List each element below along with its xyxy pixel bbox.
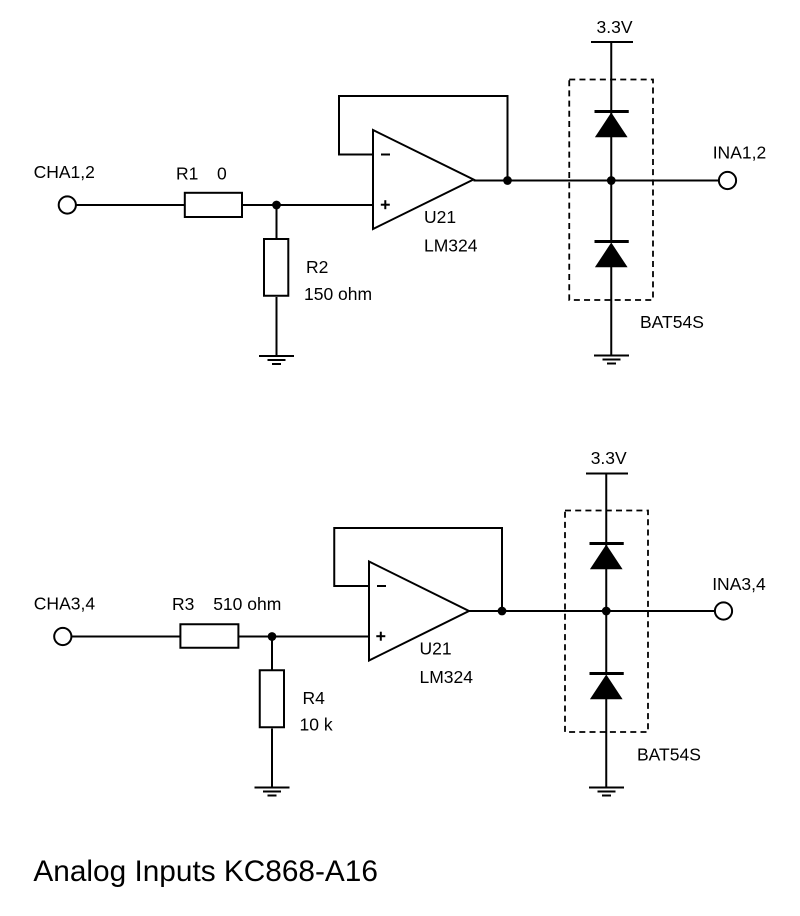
junction node at feedback/output (second) <box>498 607 507 616</box>
label U21 (second) <box>420 639 452 659</box>
junction node at R2 top <box>272 201 281 210</box>
power rail bar 3.3V <box>591 41 633 43</box>
svg-text:R4: R4 <box>303 688 326 708</box>
svg-text:510 ohm: 510 ohm <box>213 594 281 614</box>
wire R1 to op-amp + input <box>243 204 373 206</box>
svg-text:R2: R2 <box>306 257 328 277</box>
node CHA1,2 label <box>34 162 95 182</box>
feedback wire (output to - input) <box>334 528 502 612</box>
diode D4 (to ground) <box>590 674 624 700</box>
terminal INA3,4 <box>715 602 732 619</box>
svg-text:3.3V: 3.3V <box>591 448 627 468</box>
terminal CHA3,4 <box>54 628 71 645</box>
label R1 value 0 <box>176 164 227 184</box>
power rail bar 3.3V (second) <box>586 473 628 475</box>
svg-text:0: 0 <box>217 164 227 184</box>
wire node to R2 <box>276 205 278 238</box>
wire terminal to R1 <box>76 204 184 206</box>
label LM324 (second) <box>420 667 474 687</box>
diode D2 (to ground) <box>595 242 629 268</box>
svg-text:150 ohm: 150 ohm <box>304 284 372 304</box>
label LM324 <box>424 236 478 256</box>
label U21 <box>424 207 456 227</box>
label BAT54S <box>640 312 704 332</box>
ground below diode column (second) <box>589 788 624 796</box>
op-amp plus input mark <box>381 200 390 209</box>
wire op-amp output to INA3,4 terminal <box>469 610 715 612</box>
svg-text:R1: R1 <box>176 164 198 184</box>
node INA1,2 label <box>713 142 767 162</box>
ground below R2 <box>259 356 294 364</box>
wire R3 to op-amp + input <box>239 636 370 638</box>
terminal CHA1,2 <box>59 196 76 213</box>
junction node at feedback/output <box>503 176 512 185</box>
svg-text:3.3V: 3.3V <box>597 17 633 37</box>
power 3.3V label <box>597 17 633 37</box>
node CHA3,4 label <box>34 593 96 613</box>
label BAT54S (second) <box>637 744 701 764</box>
svg-text:LM324: LM324 <box>420 667 474 687</box>
wire D4 to ground <box>605 699 607 788</box>
resistor R4 <box>260 670 284 727</box>
wire R4 to ground <box>271 729 273 788</box>
wire 3.3V to diode D1 <box>610 42 612 135</box>
wire D1 to output node <box>610 137 612 241</box>
ground below diode column <box>594 356 629 364</box>
op-amp minus input mark <box>381 154 390 156</box>
junction node at R4 top <box>268 632 277 641</box>
wire 3.3V to diode D3 <box>605 474 607 567</box>
wire op-amp output to INA1,2 terminal <box>474 180 719 182</box>
diode D1 (to 3.3V) <box>595 112 629 138</box>
op-amp U21 (second) <box>369 562 469 661</box>
feedback wire (output to - input) <box>339 96 508 181</box>
svg-text:U21: U21 <box>420 639 452 659</box>
junction node at diode column <box>607 176 616 185</box>
diode D3 (to 3.3V) <box>590 544 624 570</box>
label R4 10 k <box>300 688 333 734</box>
terminal INA1,2 <box>719 172 736 189</box>
wire D2 to ground <box>610 267 612 356</box>
svg-text:INA3,4: INA3,4 <box>712 574 766 594</box>
label R2 150 ohm <box>304 257 372 304</box>
svg-text:U21: U21 <box>424 207 456 227</box>
op-amp plus input mark <box>376 632 385 641</box>
svg-text:BAT54S: BAT54S <box>637 744 701 764</box>
power 3.3V label (second) <box>591 448 627 468</box>
wire D3 to output node <box>605 569 607 673</box>
resistor R1 <box>185 193 242 217</box>
svg-text:INA1,2: INA1,2 <box>713 142 767 162</box>
resistor R2 <box>264 239 288 296</box>
svg-text:R3: R3 <box>172 594 194 614</box>
wire terminal to R3 <box>72 636 180 638</box>
BAT54S dashed package box (second) <box>565 511 648 733</box>
wire R2 to ground <box>276 297 278 356</box>
ground below R4 <box>255 788 290 796</box>
svg-text:10 k: 10 k <box>300 714 333 734</box>
svg-text:LM324: LM324 <box>424 236 478 256</box>
svg-text:CHA3,4: CHA3,4 <box>34 593 96 613</box>
label R3 value 510 ohm <box>172 594 281 614</box>
title Analog Inputs KC868-A16 <box>33 855 378 888</box>
svg-text:CHA1,2: CHA1,2 <box>34 162 95 182</box>
node INA3,4 label <box>712 574 766 594</box>
junction node at diode column (second) <box>602 607 611 616</box>
op-amp U21 <box>373 130 474 229</box>
resistor R3 <box>180 624 238 648</box>
svg-text:BAT54S: BAT54S <box>640 312 704 332</box>
BAT54S dashed package box <box>569 80 653 301</box>
wire node to R4 <box>271 637 273 670</box>
op-amp minus input mark <box>377 585 386 587</box>
svg-text:Analog Inputs KC868-A16: Analog Inputs KC868-A16 <box>33 855 378 888</box>
